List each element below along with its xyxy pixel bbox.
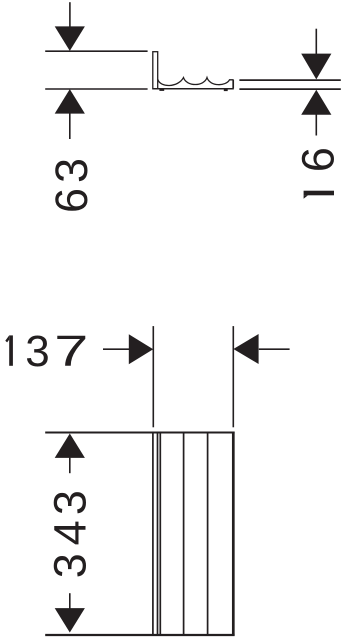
svg-text:6: 6	[292, 147, 343, 172]
svg-text:3: 3	[45, 553, 96, 578]
svg-text:3: 3	[25, 327, 49, 376]
svg-text:3: 3	[45, 490, 96, 515]
svg-text:6: 6	[46, 188, 97, 213]
svg-text:4: 4	[45, 520, 96, 545]
svg-text:3: 3	[46, 158, 97, 183]
svg-text:7: 7	[54, 327, 88, 375]
